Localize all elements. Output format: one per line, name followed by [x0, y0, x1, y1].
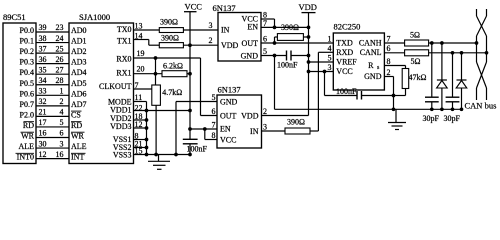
- svg-text:24: 24: [56, 34, 64, 43]
- svg-text:7: 7: [212, 121, 216, 130]
- svg-text:VDD: VDD: [241, 112, 259, 121]
- svg-text:2: 2: [387, 68, 391, 77]
- svg-text:1: 1: [60, 87, 64, 96]
- wire VSS1 pin8: [134, 139, 147, 141]
- svg-text:17: 17: [39, 118, 47, 127]
- svg-text:11: 11: [135, 93, 143, 102]
- svg-text:4: 4: [60, 108, 64, 117]
- ground symbol (82C250): [395, 109, 397, 122]
- svg-text:AD2: AD2: [71, 47, 87, 56]
- svg-text:OUT: OUT: [242, 39, 259, 48]
- svg-text:P0.0: P0.0: [20, 26, 34, 35]
- svg-text:ALE: ALE: [18, 142, 34, 151]
- svg-text:8: 8: [212, 131, 216, 140]
- wire VDD vertical: [308, 13, 310, 116]
- wire R7 bottom bend to GND node: [405, 89, 407, 96]
- svg-text:3: 3: [60, 139, 64, 148]
- svg-text:AD6: AD6: [71, 89, 87, 98]
- svg-text:IN: IN: [221, 26, 230, 35]
- svg-text:TXD: TXD: [336, 39, 353, 48]
- svg-text:39: 39: [39, 23, 47, 32]
- svg-text:VDD: VDD: [299, 2, 317, 12]
- svg-text:23: 23: [56, 23, 64, 32]
- svg-text:2: 2: [209, 36, 213, 45]
- IC U3 6N137 optocoupler (top): [218, 13, 261, 62]
- svg-text:P0.1: P0.1: [20, 37, 34, 46]
- svg-text:82C250: 82C250: [334, 22, 361, 32]
- svg-text:6: 6: [212, 107, 216, 116]
- svg-text:GND: GND: [241, 51, 259, 60]
- svg-text:26: 26: [56, 55, 64, 64]
- svg-text:CLKOUT: CLKOUT: [99, 82, 132, 91]
- svg-text:5: 5: [212, 93, 216, 102]
- junction R3 / VCC line: [188, 72, 192, 76]
- wire VDD1 pin22 to VCC vertical: [134, 110, 191, 112]
- wire U3 EN pin7 to VDD: [261, 26, 309, 28]
- svg-text:EN: EN: [220, 125, 231, 134]
- wire 82C250 RXD pin4: [318, 51, 333, 53]
- svg-text:P0.2: P0.2: [20, 47, 34, 56]
- svg-text:4.7kΩ: 4.7kΩ: [162, 88, 182, 97]
- junction VREF/VDD line: [307, 60, 311, 64]
- svg-text:WR: WR: [71, 132, 85, 141]
- svg-text:CANL: CANL: [360, 48, 382, 57]
- svg-text:RX0: RX0: [116, 55, 131, 64]
- svg-text:VCC: VCC: [185, 2, 203, 12]
- wire U3 GND pin5: [261, 55, 287, 57]
- svg-text:VCC: VCC: [220, 135, 236, 144]
- svg-text:AD5: AD5: [71, 79, 87, 88]
- svg-text:OUT: OUT: [220, 112, 237, 121]
- svg-text:28: 28: [56, 76, 64, 85]
- wire VDD3 pin12: [134, 127, 147, 129]
- svg-text:7: 7: [135, 81, 139, 90]
- junction VCC/VDD line: [307, 70, 311, 74]
- svg-text:6N137: 6N137: [218, 85, 241, 95]
- junction GND/ground drop: [273, 54, 277, 58]
- svg-text:6.2kΩ: 6.2kΩ: [163, 62, 183, 71]
- wire U3 OUT pin6 to 82C250 TXD: [261, 42, 333, 44]
- svg-text:P0.7: P0.7: [20, 100, 34, 109]
- wire CANL pin6: [384, 52, 404, 54]
- resistor R6 390R in RXD line: [285, 128, 310, 134]
- svg-text:89C51: 89C51: [3, 12, 26, 22]
- svg-text:CS: CS: [71, 110, 81, 119]
- resistor R7 47k vertical: [402, 69, 409, 89]
- wire RX0 drop to U4 OUT pin6: [200, 58, 202, 116]
- svg-text:19: 19: [137, 49, 145, 58]
- svg-text:3: 3: [209, 21, 213, 30]
- wire P0.6 pin33 to AD6 pin1: [36, 94, 69, 96]
- svg-text:390Ω: 390Ω: [281, 23, 299, 32]
- svg-text:2: 2: [263, 107, 267, 116]
- svg-text:27: 27: [56, 65, 64, 74]
- wire U4 EN pin7 to VCC line: [190, 128, 217, 130]
- svg-text:5: 5: [328, 54, 332, 63]
- svg-text:6: 6: [263, 35, 267, 44]
- wire P0.1 pin38 to AD1 pin24: [36, 42, 69, 44]
- svg-text:47kΩ: 47kΩ: [409, 73, 427, 82]
- svg-text:EN: EN: [247, 22, 258, 31]
- wire VCC vertical: [189, 12, 191, 140]
- svg-text:16: 16: [39, 129, 47, 138]
- wire 82C250 GND pin2 to ground: [384, 76, 393, 78]
- wire U4 IN pin3 through R6 to 82C250 RXD: [262, 130, 286, 132]
- wire WR pin16 to WR pin6: [36, 137, 69, 139]
- capacitor C3 100nF (SJA supply): [183, 138, 198, 140]
- power bar VDD: [302, 12, 316, 14]
- svg-text:s: s: [377, 65, 380, 71]
- wire U3 VCC pin8 stub: [261, 18, 275, 20]
- svg-text:P0.4: P0.4: [20, 68, 34, 77]
- svg-text:16: 16: [56, 150, 64, 159]
- svg-text:3: 3: [328, 63, 332, 72]
- svg-text:ALE: ALE: [71, 142, 87, 151]
- wire CAN bus twisted pair: [476, 9, 478, 16]
- svg-text:P0.6: P0.6: [20, 89, 34, 98]
- svg-text:RD: RD: [71, 121, 82, 130]
- wire C2 branch: [324, 72, 326, 96]
- junction pin8/pin7: [273, 26, 277, 30]
- svg-text:1: 1: [328, 35, 332, 44]
- svg-text:6: 6: [60, 129, 64, 138]
- resistor R8 5R in CANH: [405, 40, 429, 46]
- IC U4 6N137 optocoupler (bottom): [217, 95, 262, 148]
- svg-text:390Ω: 390Ω: [287, 118, 305, 127]
- svg-text:5: 5: [60, 118, 64, 127]
- svg-text:35: 35: [39, 65, 47, 74]
- svg-text:AD7: AD7: [71, 100, 87, 109]
- resistor R5 390R pullup OUT-VDD: [274, 37, 276, 43]
- wire VDD2 pin18: [134, 119, 147, 121]
- wire RX0 pin19: [134, 57, 201, 59]
- svg-text:VREF: VREF: [336, 58, 357, 67]
- IC U2 SJA1000 CAN controller: [69, 23, 134, 164]
- wire U4 GND pin5 to ground rail: [176, 101, 217, 103]
- wire P0.4 pin35 to AD4 pin27: [36, 73, 69, 75]
- wire P0.2 pin37 to AD2 pin25: [36, 52, 69, 54]
- svg-text:VCC: VCC: [336, 67, 352, 76]
- svg-text:32: 32: [39, 97, 47, 106]
- diode D2 on CANL: [461, 53, 463, 80]
- wire R4 bottom to ground rail: [155, 105, 157, 154]
- wire INT0 pin12 to INT pin16: [36, 158, 69, 160]
- svg-text:12: 12: [135, 120, 143, 129]
- svg-text:36: 36: [39, 55, 47, 64]
- svg-text:15: 15: [135, 147, 143, 156]
- svg-text:21: 21: [39, 108, 47, 117]
- wire VSS2 pin21: [134, 147, 147, 149]
- wire ALE pin30 to ALE pin3: [36, 147, 69, 149]
- svg-text:RXD: RXD: [336, 48, 353, 57]
- wire RD pin17 to RD pin5: [36, 126, 69, 128]
- svg-text:6N137: 6N137: [213, 3, 236, 13]
- capacitor C2 100nF (82C250 supply): [356, 91, 358, 100]
- svg-text:30: 30: [39, 139, 47, 148]
- svg-text:5Ω: 5Ω: [410, 30, 420, 39]
- svg-text:25: 25: [56, 44, 64, 53]
- wire P2.0 pin21 to CS pin4: [36, 115, 69, 117]
- svg-text:33: 33: [39, 87, 47, 96]
- resistor R9 5R in CANL: [405, 50, 429, 56]
- wire MODE pin11: [134, 101, 147, 103]
- svg-text:INT0: INT0: [17, 153, 34, 162]
- svg-text:IN: IN: [250, 127, 259, 136]
- wire ground rail: [275, 108, 463, 110]
- svg-text:VDD3: VDD3: [110, 122, 131, 131]
- svg-text:38: 38: [39, 34, 47, 43]
- svg-text:CAN bus: CAN bus: [465, 101, 497, 111]
- svg-text:TX0: TX0: [117, 25, 132, 34]
- svg-text:6: 6: [387, 44, 391, 53]
- svg-text:390Ω: 390Ω: [160, 18, 178, 27]
- wire MODE/VDD/VSS vertical: [146, 102, 148, 155]
- svg-text:2: 2: [60, 97, 64, 106]
- wire CLKOUT pin7 to R4: [134, 88, 152, 90]
- power bar VCC: [184, 11, 197, 13]
- diode D1 on CANH: [441, 43, 443, 80]
- wire U3 GND drop to ground rail: [274, 56, 276, 110]
- svg-text:4: 4: [328, 44, 332, 53]
- wire RX1 pin20 through R3 to VCC: [134, 73, 163, 75]
- junction ground rail / ground symbol: [392, 107, 396, 111]
- ground symbol (SJA1000 VSS): [158, 155, 160, 162]
- resistor R2 390R in TX1 line: [159, 43, 183, 48]
- svg-text:7: 7: [263, 19, 267, 28]
- junction CANH to bus: [475, 41, 479, 45]
- wire TX1 pin14 jog down to opto U3 VDD: [134, 39, 149, 41]
- junction RX1 tie: [154, 72, 158, 76]
- IC U1 89C51 microcontroller: [3, 23, 36, 164]
- wire Rs pin8 to R7: [384, 65, 405, 67]
- wire TX0 pin13 to opto U3 IN: [134, 29, 160, 31]
- svg-text:390Ω: 390Ω: [161, 34, 179, 43]
- svg-text:AD1: AD1: [71, 37, 87, 46]
- svg-text:13: 13: [135, 22, 143, 31]
- wire 82C250 VREF pin5 to VDD: [309, 61, 334, 63]
- svg-text:AD4: AD4: [71, 68, 87, 77]
- resistor R4 4.7k vertical: [152, 85, 161, 105]
- svg-text:P0.3: P0.3: [20, 58, 34, 67]
- svg-text:P0.5: P0.5: [20, 79, 34, 88]
- junction VCC/C2 branch: [323, 70, 327, 74]
- svg-text:TX1: TX1: [117, 36, 132, 45]
- svg-text:GND: GND: [220, 98, 238, 107]
- svg-text:30pF: 30pF: [444, 114, 461, 123]
- svg-text:VSS3: VSS3: [113, 151, 132, 160]
- svg-text:SJA1000: SJA1000: [79, 12, 110, 22]
- svg-text:3: 3: [263, 123, 267, 132]
- junction VCC / R2 / U3 pin2: [188, 43, 192, 47]
- wire U4 VCC pin8 stub: [204, 129, 206, 140]
- junction EN/VDD line: [307, 26, 311, 30]
- wire U4 VDD pin2 to VDD vertical: [262, 115, 309, 117]
- wire VSS3 pin15 ground rail: [134, 154, 191, 156]
- svg-text:VDD: VDD: [221, 41, 239, 50]
- svg-text:14: 14: [135, 31, 143, 40]
- capacitor C1 100nF (U3 supply): [286, 51, 288, 61]
- svg-text:R: R: [368, 61, 374, 70]
- svg-text:30pF: 30pF: [423, 114, 440, 123]
- junction CANL to bus: [485, 51, 489, 55]
- svg-text:RD: RD: [23, 121, 34, 130]
- svg-text:5Ω: 5Ω: [411, 57, 421, 66]
- junction C2/GND drop/R7: [392, 94, 396, 98]
- wire P0.3 pin36 to AD3 pin26: [36, 63, 69, 65]
- svg-text:12: 12: [39, 150, 47, 159]
- IC U5 82C250 CAN transceiver: [333, 33, 384, 90]
- wire P0.7 pin32 to AD7 pin2: [36, 105, 69, 107]
- svg-text:37: 37: [39, 44, 47, 53]
- svg-text:AD3: AD3: [71, 58, 87, 67]
- wire RX0-RX1 vertical tie: [155, 58, 157, 85]
- svg-text:100nF: 100nF: [187, 144, 208, 153]
- svg-text:CANH: CANH: [359, 39, 382, 48]
- svg-text:WR: WR: [21, 132, 35, 141]
- junction OUT/R5 pullup: [273, 41, 277, 45]
- svg-text:100nF: 100nF: [336, 87, 357, 96]
- svg-text:GND: GND: [364, 72, 382, 81]
- svg-text:100nF: 100nF: [277, 61, 298, 70]
- junction EN/VCC vertical: [188, 127, 192, 131]
- svg-text:7: 7: [387, 34, 391, 43]
- junction EN/pin8 tie: [203, 127, 207, 131]
- capacitor C5 30pF on CANL: [452, 53, 454, 97]
- svg-text:5: 5: [263, 47, 267, 56]
- wire CANH pin7: [384, 42, 404, 44]
- svg-text:AD0: AD0: [71, 26, 87, 35]
- svg-text:34: 34: [39, 76, 47, 85]
- wire 82C250 VCC pin3 to VDD: [309, 71, 334, 73]
- wire P0.5 pin34 to AD5 pin28: [36, 84, 69, 86]
- svg-text:RX1: RX1: [116, 69, 131, 78]
- junction R5/VDD line: [307, 35, 311, 39]
- resistor R3 6.2k: [162, 71, 187, 77]
- svg-text:8: 8: [387, 57, 391, 66]
- wire P0.0 pin39 to AD0 pin23: [36, 31, 69, 33]
- junction RX0/RX1 tie: [154, 56, 158, 60]
- svg-text:P2.0: P2.0: [20, 110, 34, 119]
- resistor R1 390R in TX0 line: [159, 28, 183, 33]
- svg-text:INT: INT: [71, 153, 84, 162]
- capacitor C4 30pF on CANH: [431, 43, 433, 97]
- svg-text:20: 20: [137, 65, 145, 74]
